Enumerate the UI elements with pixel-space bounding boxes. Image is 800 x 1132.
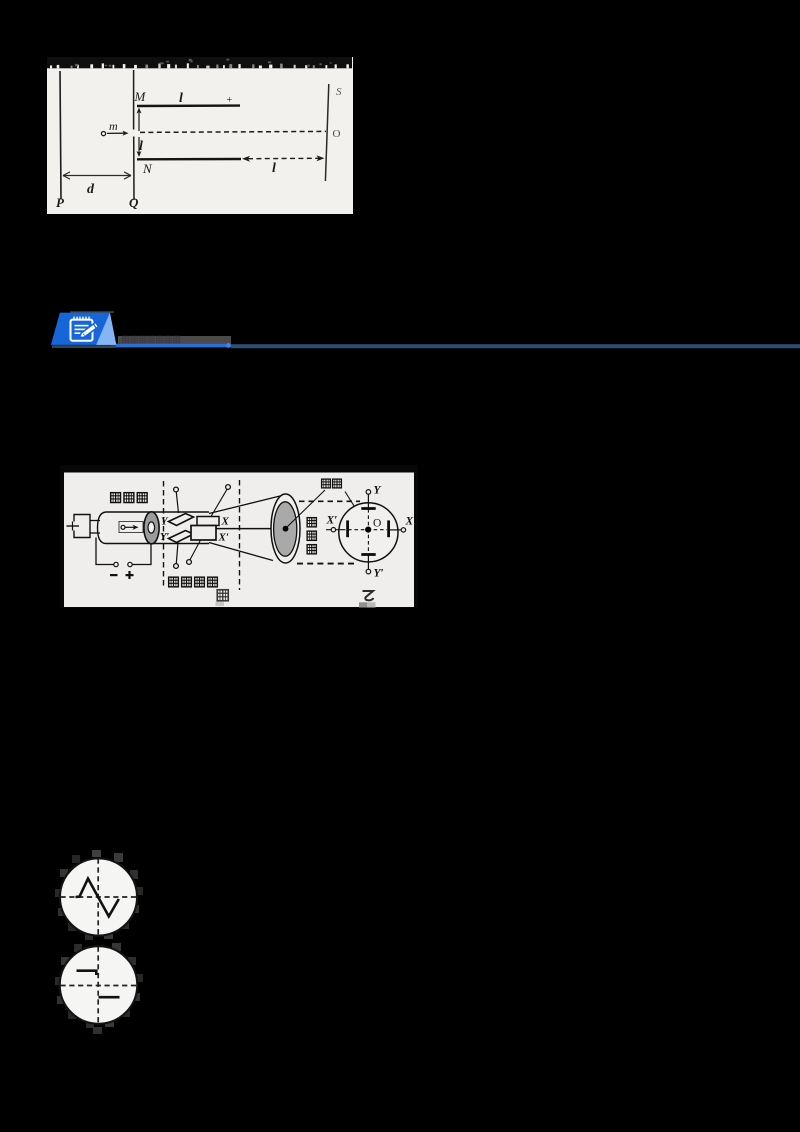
battery symbol [67,515,91,538]
bright spot on screen [283,526,289,532]
wire battery to gun bottom [90,532,100,534]
bright blue underline [111,343,231,348]
svg-text:d: d [87,182,95,197]
svg-text:Y′: Y′ [374,568,384,580]
label P [56,195,65,210]
svg-text:X: X [221,516,230,528]
X plate back [197,517,219,526]
front horizontal axis [326,529,401,531]
label jia [217,590,228,601]
label l bottom [272,161,276,176]
label Yf [374,485,382,497]
svg-text:N: N [142,161,153,176]
svg-text:l: l [272,161,276,176]
plate P [60,71,61,199]
label d [87,182,95,197]
dashed projector upper [299,500,360,502]
cone upper [209,496,282,514]
svg-text:X′: X′ [326,515,338,527]
plus sign [126,571,134,579]
crosshair 2 [61,947,137,1024]
svg-text:Y: Y [374,485,382,497]
label dianziqiang (electron gun) [111,493,147,503]
label liangban (bright spot) [322,479,342,488]
label S [336,86,342,98]
terminal Y top [174,487,179,513]
label X [221,516,230,528]
yi gray block [359,602,376,607]
label Xf2 [405,516,414,528]
label l top [179,91,183,106]
svg-text:Q: Q [129,195,139,210]
gun inner anode [119,522,143,533]
oscilloscope screens [48,846,150,1036]
svg-text:Y′: Y′ [160,532,169,543]
step waveform high [77,971,97,975]
label l mid [139,139,143,154]
svg-text:l: l [179,91,183,106]
svg-text:O: O [333,128,341,140]
screen outer ellipse [271,494,300,563]
front view circle [339,503,398,562]
terminal Yf [366,490,371,495]
dashed boundary 1 [163,481,165,586]
label Q [129,195,139,210]
plus sign [227,95,233,106]
svg-text:m: m [109,119,118,133]
terminal Y bottom [174,542,179,568]
plate Q lower segment [133,137,135,201]
electrode bar bottom [361,553,375,556]
Y plate lower [169,531,194,543]
svg-text:S: S [336,86,342,98]
leader to screen spot [287,490,326,528]
electrode bar top [361,507,375,510]
electrode bar right [387,520,390,537]
label m [109,119,118,133]
label X2 [218,532,229,544]
distance d double arrow [63,172,131,179]
terminal X bottom [187,540,201,564]
minus sign [110,574,118,576]
notes icon header [45,308,800,352]
screen S line [325,84,328,181]
plate M top [137,104,240,107]
dashed arrow to screen [242,155,325,162]
electrode bar left [346,520,349,537]
label pianzhuandianji (deflection electrodes) [169,577,218,587]
plate N bottom [137,158,241,161]
plate Q upper segment [133,70,135,130]
center spot [365,527,371,533]
notebook [71,317,93,341]
navy divider bar [231,344,800,348]
svg-text:M: M [134,89,147,104]
label N [142,161,153,176]
jia gray block [216,602,225,607]
svg-text:X′: X′ [218,532,229,544]
Y plate upper [169,514,194,526]
title text [122,336,179,342]
particle m [101,132,105,136]
icon trapezoid [51,311,116,348]
cone lower [209,543,273,561]
cathode disk [144,512,159,544]
scan paper [64,473,414,608]
step waveform low [99,996,120,999]
label Y [161,517,169,528]
terminal Yf2 [366,569,371,574]
down arrow [137,137,142,157]
wire minus loop [96,538,114,565]
scan artifacts ring 2 [55,943,143,1034]
X plate front [191,526,216,541]
label Y2 [160,532,169,543]
figure 1: charged particle between plates (scanned) [47,57,353,214]
label Xf [326,515,338,527]
pencil [80,322,99,337]
leader to circle spot [345,492,368,528]
scan dark border [60,465,418,608]
terminal Xf2 [401,528,405,532]
terminal plus [128,562,132,566]
label O [333,128,341,140]
paper background [47,57,353,214]
triangle waveform [76,879,119,917]
screen circle 2 [60,946,138,1024]
dashed projector lower [297,563,358,565]
label yi [363,591,374,600]
axis dashed line [140,131,326,132]
svg-text:O: O [373,518,381,530]
wire battery to gun top [90,520,100,522]
dashed boundary 2 [239,480,241,590]
label O [373,518,381,530]
terminal minus [114,562,118,566]
beam line [216,528,284,530]
cropped text band [47,57,352,68]
terminal X top [211,485,230,517]
gray title bar [118,336,231,344]
scan artifacts ring 1 [55,850,143,940]
svg-text:P: P [56,195,65,210]
figure 2: CRT / oscilloscope tube (scanned) [60,465,418,608]
terminal Xf [331,528,335,532]
svg-text:X: X [405,516,414,528]
arrow of m [107,131,129,136]
wire plus to cathode [132,544,151,565]
up arrow [137,108,142,132]
svg-text:+: + [227,95,233,106]
front vertical axis [367,494,369,569]
label yingguangping (fluorescent screen) [307,518,316,554]
label Yf2 [374,568,384,580]
gun tube outline [98,512,210,544]
label M [134,89,147,104]
screen circle 1 [60,858,137,935]
screen phosphor [274,502,297,556]
crosshair 1 [61,859,137,936]
